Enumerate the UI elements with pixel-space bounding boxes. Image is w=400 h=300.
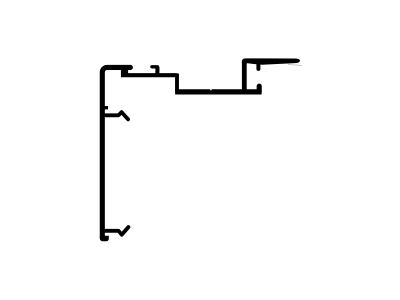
lower shelf [175,89,262,94]
faint wisp under fin tip [289,64,302,65]
fin tab [256,64,260,69]
channel wall [242,62,247,94]
left wall and top flange [102,67,130,237]
tapered fin [242,58,300,64]
lower barb [104,227,128,235]
glazing hook lip [152,65,158,68]
nub on left wall [104,106,108,109]
foot [100,236,109,242]
shelf nick [209,88,212,91]
step under top flange [121,67,128,75]
upper barb [104,112,128,119]
mid shelf [121,73,177,77]
step down to lower shelf [175,74,179,92]
glazing hook stem [155,67,159,74]
end hook on lower shelf [257,86,262,92]
